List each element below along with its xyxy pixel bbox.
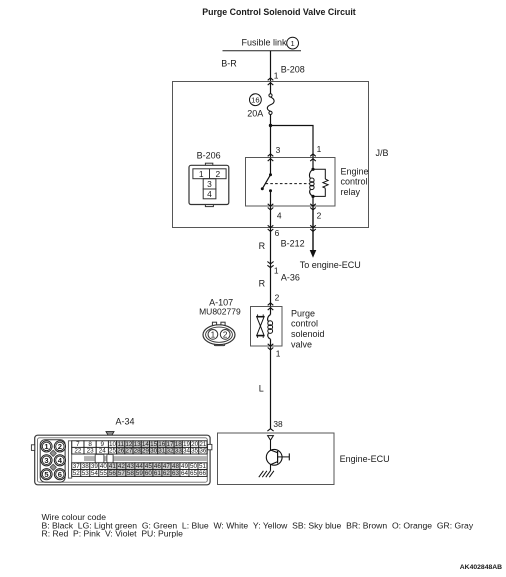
- svg-text:16: 16: [251, 96, 259, 105]
- svg-text:1: 1: [290, 39, 294, 48]
- svg-text:R: R: [259, 241, 266, 251]
- connector B-206 body: [205, 163, 212, 166]
- B-206 pin row 1-2: [193, 169, 226, 179]
- svg-text:63: 63: [172, 470, 180, 477]
- A-34 pin 1: [41, 441, 52, 452]
- svg-text:52: 52: [73, 470, 81, 477]
- svg-text:Purge Control Solenoid Valve C: Purge Control Solenoid Valve Circuit: [202, 7, 356, 17]
- connector B-208 crossing arrows at J/B top: [268, 78, 274, 80]
- svg-text:1: 1: [317, 144, 322, 154]
- svg-text:22: 22: [74, 448, 82, 455]
- B-206 pin 3 cell: [203, 179, 216, 189]
- svg-text:26: 26: [117, 448, 125, 455]
- A-34 pin 3: [41, 455, 52, 466]
- svg-text:24: 24: [99, 448, 107, 455]
- svg-text:B-208: B-208: [281, 65, 305, 75]
- svg-text:61: 61: [154, 470, 162, 477]
- svg-text:34: 34: [183, 448, 191, 455]
- svg-text:1: 1: [211, 330, 216, 339]
- svg-text:54: 54: [91, 470, 99, 477]
- relay actuation dashed link: [266, 183, 311, 185]
- svg-text:1: 1: [199, 169, 204, 179]
- svg-text:66: 66: [199, 470, 207, 477]
- engine control relay box: [246, 158, 336, 207]
- fusible link number circle 1: [287, 37, 299, 49]
- svg-text:2: 2: [223, 330, 228, 339]
- svg-text:relay: relay: [341, 187, 361, 197]
- fuse 16 symbol: [269, 94, 272, 97]
- A-34 pin 2: [54, 441, 65, 452]
- svg-text:27: 27: [125, 448, 133, 455]
- svg-text:A-36: A-36: [281, 272, 300, 282]
- A-34 terminal 38 crossing arrow: [267, 429, 273, 431]
- A-34 key marker triangle: [106, 432, 114, 439]
- relay pin arrows top: [268, 154, 274, 156]
- svg-text:33: 33: [175, 448, 183, 455]
- arrow to engine-ECU: [310, 250, 317, 258]
- B-206 pin 4 cell: [203, 189, 216, 199]
- svg-text:23: 23: [87, 448, 95, 455]
- connector A-34 outer shell: [35, 435, 210, 485]
- transistor Q inside ECU: [270, 440, 272, 450]
- A-34 pin 6: [54, 469, 65, 480]
- fusible link bus bar: [223, 50, 302, 52]
- svg-text:3: 3: [276, 145, 281, 155]
- svg-text:25: 25: [109, 448, 117, 455]
- svg-text:35: 35: [191, 448, 199, 455]
- svg-text:62: 62: [163, 470, 171, 477]
- svg-text:4: 4: [207, 189, 212, 199]
- svg-text:To engine-ECU: To engine-ECU: [300, 260, 361, 270]
- svg-text:32: 32: [167, 448, 175, 455]
- svg-text:MU802779: MU802779: [199, 306, 241, 316]
- svg-text:R: R: [259, 279, 266, 289]
- B-212 crossing arrows at J/B bottom: [268, 225, 274, 227]
- svg-text:AK402848AB: AK402848AB: [460, 564, 502, 571]
- A-107 pin 1: [208, 330, 218, 340]
- svg-text:1: 1: [276, 348, 281, 358]
- svg-text:53: 53: [82, 470, 90, 477]
- A-34 pin grid bottom block pins 37-66: [72, 463, 81, 470]
- svg-text:B-212: B-212: [281, 239, 305, 249]
- svg-text:1: 1: [274, 71, 279, 81]
- solenoid coil: [270, 307, 272, 315]
- A-34 pin 4: [54, 455, 65, 466]
- svg-text:56: 56: [109, 470, 117, 477]
- svg-text:A-34: A-34: [116, 416, 135, 426]
- svg-text:4: 4: [277, 211, 282, 221]
- A-34 pin grid top block pins 7-36: [72, 441, 84, 448]
- svg-text:31: 31: [158, 448, 166, 455]
- svg-text:58: 58: [127, 470, 135, 477]
- wire from relay pin 4 down to solenoid valve: [270, 206, 272, 307]
- svg-text:control: control: [291, 319, 318, 329]
- A-34 left tab: [31, 445, 34, 451]
- svg-text:solenoid: solenoid: [291, 329, 325, 339]
- svg-text:J/B: J/B: [376, 148, 389, 158]
- purge control solenoid valve box: [251, 307, 283, 347]
- relay parallel resistor: [313, 169, 325, 179]
- junction node dot: [269, 124, 272, 127]
- svg-text:2: 2: [215, 169, 220, 179]
- svg-text:2: 2: [275, 292, 280, 302]
- engine-ECU box: [218, 433, 335, 485]
- junction block J/B box: [173, 82, 369, 228]
- valve symbol: [257, 314, 259, 316]
- ground symbol: [269, 471, 274, 477]
- relay coil: [312, 158, 314, 170]
- svg-text:3: 3: [44, 456, 48, 465]
- ECU side connector triangle: [268, 436, 274, 441]
- svg-text:65: 65: [190, 470, 198, 477]
- svg-text:59: 59: [136, 470, 144, 477]
- svg-text:Fusible link: Fusible link: [242, 37, 288, 47]
- svg-text:57: 57: [118, 470, 126, 477]
- svg-text:Purge: Purge: [291, 308, 315, 318]
- svg-text:3: 3: [207, 179, 212, 189]
- A-34 round pin block: [40, 440, 65, 482]
- svg-text:36: 36: [199, 448, 207, 455]
- connector A-107 oval body: [212, 322, 216, 325]
- svg-text:Engine: Engine: [341, 166, 369, 176]
- relay pin arrows bottom: [268, 204, 274, 206]
- wire from fuse to relay contact: [270, 115, 272, 158]
- svg-text:control: control: [341, 177, 368, 187]
- branch wire to relay coil pin 1: [271, 126, 314, 158]
- svg-text:R: Red P: Pink V: Violet PU: R: Red P: Pink V: Violet PU: Purple: [42, 529, 184, 539]
- wire from relay pin 2 to engine-ECU arrow: [312, 206, 314, 251]
- wire L from solenoid valve to engine-ECU: [270, 346, 272, 429]
- A-34 pin 5: [41, 469, 52, 480]
- A-34 interstice diamonds: [50, 450, 56, 456]
- svg-text:valve: valve: [291, 340, 312, 350]
- relay switch contact: [270, 158, 272, 175]
- svg-text:2: 2: [317, 211, 322, 221]
- svg-text:2: 2: [58, 442, 62, 451]
- svg-text:B-R: B-R: [221, 58, 237, 68]
- fuse number circle 16: [250, 94, 262, 106]
- wire B-R from fusible link into J/B: [270, 51, 272, 94]
- inline connector A-36 crossing: [267, 262, 273, 264]
- svg-text:L: L: [259, 383, 264, 393]
- svg-text:6: 6: [275, 228, 280, 238]
- svg-text:38: 38: [273, 419, 283, 429]
- svg-text:30: 30: [150, 448, 158, 455]
- svg-text:B-206: B-206: [197, 151, 221, 161]
- svg-text:1: 1: [274, 265, 279, 275]
- A-107 pin 2: [220, 330, 230, 340]
- svg-text:20A: 20A: [247, 109, 263, 119]
- svg-text:28: 28: [134, 448, 142, 455]
- svg-text:60: 60: [145, 470, 153, 477]
- svg-text:6: 6: [58, 470, 62, 479]
- svg-text:Engine-ECU: Engine-ECU: [340, 454, 390, 464]
- svg-text:29: 29: [142, 448, 150, 455]
- A-34 centre gray bar and key slots: [84, 456, 207, 461]
- A-34 centre rib: [68, 441, 71, 478]
- svg-text:55: 55: [100, 470, 108, 477]
- A-34 right tab: [208, 444, 212, 449]
- svg-text:64: 64: [181, 470, 189, 477]
